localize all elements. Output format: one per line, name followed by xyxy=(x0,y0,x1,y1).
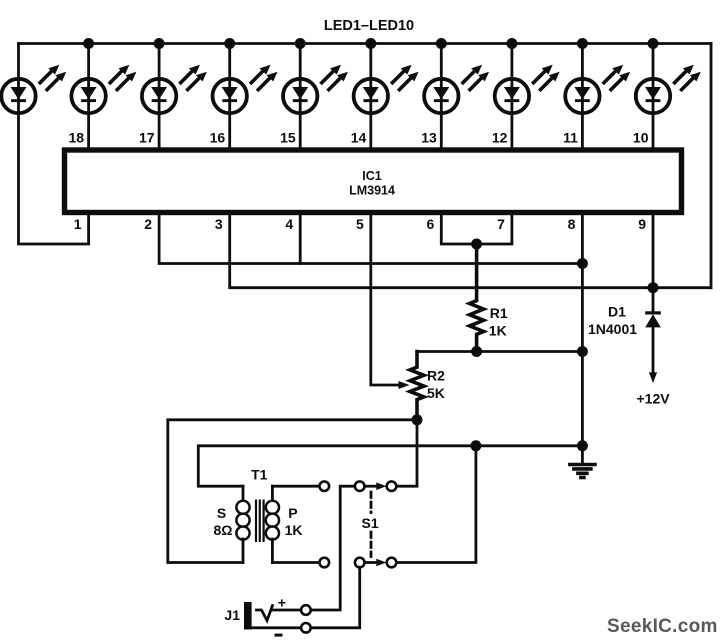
potentiometer R2 xyxy=(410,352,424,420)
junction: pin8 / ground symbol xyxy=(577,440,588,451)
svg-text:12: 12 xyxy=(492,130,508,146)
svg-text:1N4001: 1N4001 xyxy=(588,321,637,337)
junction: rail tap LED10 xyxy=(648,38,659,49)
LED LED8 xyxy=(495,65,560,113)
wire: R2 bottom left loop to T1 secondary bottom xyxy=(168,420,417,563)
transformer T1 core xyxy=(256,500,264,543)
wire: LED8 to pin 12 xyxy=(510,44,513,151)
svg-text:18: 18 xyxy=(69,130,85,146)
wire: J1 sleeve (-) up to S1 lower common xyxy=(311,568,360,628)
svg-text:8Ω: 8Ω xyxy=(213,522,232,538)
svg-text:8: 8 xyxy=(568,216,576,232)
junction: rail tap LED2 xyxy=(83,38,94,49)
svg-text:LED1–LED10: LED1–LED10 xyxy=(324,18,414,34)
svg-text:T1: T1 xyxy=(251,467,268,483)
junction: rail tap LED6 xyxy=(365,38,376,49)
wire: LED3 to pin 17 xyxy=(158,44,161,151)
op-amp/IC U1: IC1 LM3914 bar-graph driver xyxy=(65,150,682,213)
wire: rail right drop to V+ line xyxy=(710,44,713,288)
switch S1 linkage (dashed) xyxy=(370,492,373,513)
connector J1 phone jack body xyxy=(244,602,252,630)
svg-text:+12V: +12V xyxy=(637,391,671,407)
wire: LED7 to pin 13 xyxy=(440,44,443,151)
wire: pin 2 to ground/ref net xyxy=(159,213,582,264)
wire: LED2 to pin 18 xyxy=(87,44,90,151)
wire: pins 6-7 tied xyxy=(441,213,512,245)
wire: J1 tip (+) up to S1 upper common xyxy=(311,486,355,610)
wire: LED6 to pin 14 xyxy=(369,44,372,151)
svg-text:6: 6 xyxy=(427,216,435,232)
svg-text:16: 16 xyxy=(210,130,226,146)
svg-text:5: 5 xyxy=(356,216,364,232)
junction: rail tap LED9 xyxy=(577,38,588,49)
wire: R1 bottom rail to pin 8 net xyxy=(417,350,582,353)
wire: R2 bottom to S1 upper right contact xyxy=(397,420,418,486)
svg-text:1K: 1K xyxy=(489,323,507,339)
svg-text:7: 7 xyxy=(497,216,505,232)
wire: T1 primary top to S1 upper left contact xyxy=(272,485,319,488)
svg-text:D1: D1 xyxy=(608,304,626,320)
terminal circle + xyxy=(301,605,311,615)
LED LED4 xyxy=(213,65,278,113)
junction: rail tap LED3 xyxy=(154,38,165,49)
wire: tip to + terminal xyxy=(272,609,302,612)
LED LED3 xyxy=(142,65,207,113)
wire: pin 8 down to ground xyxy=(581,213,584,464)
svg-text:R2: R2 xyxy=(427,368,445,384)
wire: LED5 to pin 15 xyxy=(299,44,302,151)
svg-text:J1: J1 xyxy=(224,607,240,623)
svg-text:3: 3 xyxy=(215,216,223,232)
svg-text:11: 11 xyxy=(563,130,578,146)
svg-text:13: 13 xyxy=(421,130,437,146)
svg-text:LM3914: LM3914 xyxy=(349,184,395,198)
junction: pin 9 on V+ net xyxy=(648,282,659,293)
wire: ground net horizontal to T1 secondary top xyxy=(198,446,582,486)
LED LED10 xyxy=(636,65,701,113)
junction: ground net / lower switch branch xyxy=(470,440,481,451)
svg-text:10: 10 xyxy=(633,130,649,146)
wire: pin 3 V+ to rail and D1 xyxy=(230,213,711,288)
LED LED2 xyxy=(71,65,136,113)
svg-text:+: + xyxy=(278,595,286,611)
wire: LED9 to pin 11 xyxy=(581,44,584,151)
svg-text:9: 9 xyxy=(638,216,646,232)
wire: LED10 to pin 10 xyxy=(652,44,655,151)
junction: pins 6-7 / R1 xyxy=(471,239,482,250)
svg-text:S: S xyxy=(217,505,226,521)
minus sign xyxy=(275,634,283,637)
LED LED6 xyxy=(354,65,419,113)
svg-text:P: P xyxy=(288,505,297,521)
junction: R2 bottom xyxy=(412,414,423,425)
svg-text:1K: 1K xyxy=(285,522,303,538)
svg-text:R1: R1 xyxy=(490,305,508,321)
LED LED5 xyxy=(283,65,348,113)
wiper arrowhead of R2 xyxy=(399,381,410,389)
wire: top anode rail xyxy=(19,42,712,45)
transformer T1 primary winding P 1K xyxy=(266,486,279,562)
junction: R1 bottom xyxy=(471,346,482,357)
svg-text:17: 17 xyxy=(139,130,155,146)
svg-text:IC1: IC1 xyxy=(362,169,382,183)
transformer T1 secondary winding S 8ohm xyxy=(236,486,249,562)
wire: pin 4 xyxy=(299,213,302,264)
junction: rail tap LED5 xyxy=(295,38,306,49)
LED LED7 xyxy=(424,65,489,113)
terminal circle - xyxy=(301,623,311,633)
svg-text:5K: 5K xyxy=(427,385,445,401)
ground symbol xyxy=(570,465,595,478)
svg-text:2: 2 xyxy=(144,216,152,232)
wire: ground branch to S1 lower right contact xyxy=(397,446,476,563)
LED LED1 xyxy=(1,65,66,113)
LED LED9 xyxy=(565,65,630,113)
junction: rail tap LED7 xyxy=(436,38,447,49)
junction: rail tap LED8 xyxy=(506,38,517,49)
resistor R1 xyxy=(470,244,484,352)
svg-text:1: 1 xyxy=(74,216,82,232)
switch S1 upper pole xyxy=(320,481,397,491)
junction: rail tap LED4 xyxy=(224,38,235,49)
wire: pin 9 to D1 xyxy=(652,213,655,312)
J1 tip contact xyxy=(257,606,273,621)
svg-text:15: 15 xyxy=(280,130,296,146)
diode D1 1N4001 xyxy=(645,311,661,383)
svg-text:S1: S1 xyxy=(362,515,379,531)
junction: pin 8 on pin-2 net xyxy=(577,258,588,269)
wire: T1 primary bottom to S1 lower left contact xyxy=(272,561,319,564)
wire: pin 5 signal input to R2 wiper xyxy=(371,213,401,386)
svg-text:4: 4 xyxy=(285,216,293,232)
svg-text:SeekIC.com: SeekIC.com xyxy=(607,616,718,637)
svg-text:14: 14 xyxy=(351,130,367,146)
wire: LED4 to pin 16 xyxy=(228,44,231,151)
switch S1 lower pole xyxy=(320,558,397,568)
junction: pin8 net at y351 xyxy=(577,346,588,357)
wire: sleeve to - terminal xyxy=(252,626,302,629)
wire: LED1 cathode down, across to pin 1 xyxy=(19,44,89,245)
